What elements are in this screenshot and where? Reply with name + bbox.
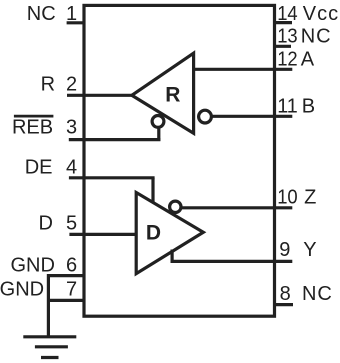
svg-text:NC: NC bbox=[302, 283, 333, 305]
svg-text:13: 13 bbox=[277, 25, 298, 47]
bubble B input bbox=[199, 110, 212, 123]
svg-text:NC: NC bbox=[301, 25, 332, 47]
svg-text:R: R bbox=[165, 83, 180, 106]
svg-text:8: 8 bbox=[280, 283, 291, 305]
wire pin 6 GND bbox=[47, 274, 84, 277]
wire pin 11 B input bbox=[212, 115, 293, 118]
svg-text:4: 4 bbox=[66, 157, 77, 179]
IC body U1 bbox=[84, 5, 275, 316]
svg-text:D: D bbox=[146, 222, 161, 245]
svg-text:11: 11 bbox=[277, 96, 298, 118]
svg-text:REB: REB bbox=[12, 116, 53, 138]
svg-text:12: 12 bbox=[277, 48, 298, 70]
svg-text:GND: GND bbox=[10, 254, 54, 276]
svg-text:6: 6 bbox=[66, 254, 77, 276]
wire pin 7 GND bbox=[47, 299, 84, 302]
wire pin 10 Z output bbox=[182, 206, 292, 209]
driver D triangle bbox=[136, 193, 203, 274]
wire pin 3 REB riser bbox=[157, 128, 160, 141]
svg-text:Y: Y bbox=[303, 239, 316, 261]
wire pin 4 DE riser bbox=[151, 178, 154, 203]
receiver R triangle bbox=[132, 53, 194, 133]
svg-text:DE: DE bbox=[25, 157, 53, 179]
svg-text:7: 7 bbox=[66, 279, 77, 301]
svg-text:Vcc: Vcc bbox=[303, 3, 339, 25]
wire GND bus down bbox=[47, 274, 50, 337]
wire pin 3 REB horizontal bbox=[69, 138, 161, 141]
wire pin 2 R output bbox=[67, 94, 132, 97]
svg-text:A: A bbox=[301, 48, 315, 70]
wire pin 12 A input bbox=[194, 68, 293, 71]
svg-text:R: R bbox=[41, 74, 55, 96]
svg-text:3: 3 bbox=[66, 116, 77, 138]
svg-text:5: 5 bbox=[66, 213, 77, 235]
svg-text:NC: NC bbox=[27, 3, 56, 25]
bubble Z output bbox=[170, 201, 181, 212]
bubble REB enable bbox=[152, 116, 164, 128]
svg-text:14: 14 bbox=[277, 3, 298, 25]
svg-text:Z: Z bbox=[304, 186, 316, 208]
wire pin 14 stub bbox=[275, 21, 293, 24]
wire pin 9 Y riser and output bbox=[172, 250, 292, 262]
overline REB bbox=[14, 115, 54, 118]
svg-text:9: 9 bbox=[279, 239, 290, 261]
wire pin 8 stub bbox=[275, 303, 294, 306]
wire pin 13 stub bbox=[275, 45, 292, 48]
svg-text:B: B bbox=[302, 96, 315, 118]
svg-text:10: 10 bbox=[277, 186, 298, 208]
ground symbol bbox=[23, 335, 76, 338]
wire pin 4 DE horizontal bbox=[69, 176, 155, 179]
wire pin 5 D input bbox=[69, 233, 136, 236]
svg-text:D: D bbox=[38, 213, 52, 235]
wire pin 1 stub bbox=[67, 21, 84, 24]
svg-text:2: 2 bbox=[66, 74, 77, 96]
svg-text:1: 1 bbox=[66, 3, 77, 25]
svg-text:GND: GND bbox=[0, 279, 44, 301]
